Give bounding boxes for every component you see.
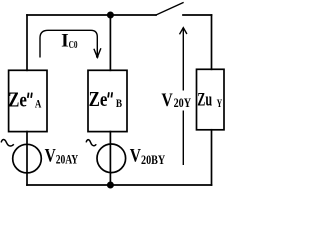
- svg-text:V: V: [45, 146, 56, 167]
- svg-text:Zu: Zu: [197, 90, 212, 111]
- svg-text:20AY: 20AY: [56, 152, 79, 167]
- svg-text:C0: C0: [69, 39, 78, 51]
- svg-text:20BY: 20BY: [141, 152, 166, 167]
- svg-text:A: A: [35, 96, 42, 110]
- svg-text:I: I: [61, 31, 69, 52]
- svg-text:Ze: Ze: [89, 89, 108, 111]
- svg-text:B: B: [116, 96, 122, 110]
- svg-text:V: V: [130, 146, 141, 167]
- svg-text:Ze: Ze: [8, 89, 27, 111]
- svg-text:20Y: 20Y: [174, 95, 192, 110]
- svg-text:Y: Y: [217, 98, 223, 110]
- svg-text:V: V: [161, 90, 173, 111]
